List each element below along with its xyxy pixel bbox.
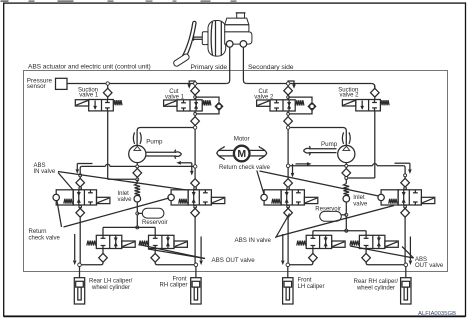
leader: ABS IN valve center to valve D (276, 206, 395, 238)
ABS OUT valve (Rear RH) body (359, 235, 385, 248)
check valve below ABS OUT valve (Front RH) (154, 249, 156, 254)
ABS IN valve (Rear LH) spring frame (56, 190, 73, 205)
cropped caption text fragments at very top (1, 1, 9, 2)
leader: return check valve left to ball A (57, 201, 62, 227)
ABS OUT valve (Rear LH) spring (87, 241, 96, 246)
svg-text:ABS OUT valve: ABS OUT valve (212, 257, 256, 264)
node above cut valve 1 body (194, 95, 196, 97)
wire: left rail (67, 83, 226, 85)
wire: ABS OUT valve (Front RH) to return line (154, 227, 156, 235)
wire: left return line corner down to IN valve A (80, 166, 82, 173)
node at pump 2 suction (345, 177, 347, 178)
inlet valve spring (left) (135, 184, 141, 196)
ABS IN valve (Front LH) spring frame (264, 190, 281, 205)
pump 1 inlet marks (133, 132, 134, 144)
wire: ABS OUT valve (Rear LH) to return line (102, 227, 104, 235)
wire: cut valve 2 down to IN valve C (287, 129, 289, 164)
svg-text:valve 2: valve 2 (254, 95, 274, 101)
check valve above cut valve 1 (194, 85, 196, 86)
leader: return check valve center to ball C (257, 171, 264, 195)
ABS OUT valve (Rear LH) body (96, 235, 122, 248)
cut valve 1 solenoid (164, 100, 177, 106)
return check valve ball (Rear RH) (378, 194, 384, 200)
svg-text:ABS actuator and electric unit: ABS actuator and electric unit (control … (28, 64, 151, 71)
node at return line junction (left) (194, 165, 197, 168)
wire: IN valve A to Rear LH wheel node (79, 217, 81, 263)
check valve above suction valve 1 (107, 85, 109, 88)
node above cut valve 2 body (287, 95, 289, 97)
pump 2 inlet marks (342, 132, 343, 144)
ABS OUT valve (Front RH) solenoid (174, 241, 187, 247)
node on rail above cut valve 2 (286, 82, 289, 85)
cut valve 2 body (270, 100, 295, 111)
cut valve 1 bypass check valve (195, 97, 219, 102)
cut valve 2 solenoid (257, 100, 270, 106)
flow arrow to Front RH wheel (200, 237, 202, 261)
leader: ABS IN valve center to valve C (276, 214, 290, 239)
suction valve 1 solenoid (75, 100, 88, 106)
wire: IN valve B to Front RH wheel node (194, 217, 196, 263)
wire: Rear RH wheel supply (405, 267, 407, 278)
wire: suction valve 2 to pump 2 suction (348, 177, 375, 179)
ABS OUT valve (Front RH) body (149, 235, 175, 248)
leader: ABS OUT valve right to valve D (402, 247, 414, 259)
check valve below ABS OUT valve (Front LH) (312, 249, 314, 254)
svg-text:ABS IN valve: ABS IN valve (235, 237, 272, 244)
wire: reservoir node down to OUT drain (right) (345, 216, 347, 229)
check valve above IN valve B (194, 168, 196, 179)
cut valve 1 body (177, 100, 202, 111)
pedal push rod (194, 36, 203, 38)
check valve below ABS IN valve (Rear LH) (76, 208, 85, 217)
cut valve 2 bypass check valve (288, 97, 312, 102)
node below ABS IN valve (Rear RH) (404, 205, 406, 207)
brake pedal pad (173, 53, 191, 67)
ABS IN valve (Front RH) body (188, 190, 211, 205)
svg-text:IN valve: IN valve (34, 169, 56, 175)
leader: return check valve center to ball D (260, 171, 379, 196)
node below cut valve 2 (287, 126, 289, 128)
secondary outlet port (240, 41, 247, 48)
check valve above suction valve 2 (374, 85, 376, 88)
ABS OUT valve (Rear LH) solenoid (122, 241, 135, 247)
ABS IN valve (Rear LH) body (73, 190, 96, 205)
brake booster (202, 32, 208, 45)
svg-text:valve 1: valve 1 (79, 93, 99, 99)
node below ABS IN valve (Front RH) (194, 205, 196, 207)
node on OUT drain line (left) (136, 226, 139, 229)
wheel cylinder (Front LH) (283, 278, 293, 304)
master cylinder reservoir tank (225, 18, 249, 32)
svg-text:wheel cylinder: wheel cylinder (91, 285, 130, 291)
inlet valve ball (left) (134, 195, 141, 202)
leader: ABS OUT valve right to valve C (350, 246, 414, 258)
wire: OUT valve B to Front RH wheel line (155, 262, 194, 265)
wire: suction valve 1 to pump 1 suction (108, 178, 136, 180)
node above ABS IN valve (Front LH) (287, 187, 290, 190)
wire: cut valve 1 to pump 1 top (137, 128, 193, 146)
ABS OUT valve (Front LH) solenoid (332, 241, 345, 247)
wheel cylinder (Rear RH) (401, 278, 411, 304)
svg-text:OUT valve: OUT valve (415, 263, 444, 269)
node at Front LH wheel line (286, 263, 290, 267)
svg-text:ABS: ABS (415, 257, 427, 263)
node below ABS IN valve (Front LH) (287, 205, 289, 207)
svg-text:LH caliper: LH caliper (298, 284, 325, 290)
pump 1 (129, 145, 146, 162)
svg-text:valve: valve (118, 197, 133, 203)
flow arrow into cut valve 1 (189, 81, 195, 85)
node at Rear LH wheel line (78, 263, 82, 267)
wire: suction valve 1 down line (107, 111, 109, 179)
wire: right rail (247, 83, 372, 85)
pump 1 flow arrow (146, 151, 176, 153)
wheel cylinder (Rear LH) (74, 278, 84, 304)
suction valve 2 return spring (381, 100, 389, 105)
motor M1 (234, 146, 250, 162)
flow arrow from return junction (right) (296, 163, 308, 165)
ABS OUT valve (Front RH) spring (139, 241, 148, 246)
wire: OUT valve D to Rear RH wheel line (366, 262, 404, 265)
cut valve 1 return spring (203, 100, 211, 105)
check valve below ABS OUT valve (Rear RH) (365, 249, 367, 254)
flow arrow into IN valve A (77, 163, 92, 165)
node on rail above suction valve 1 (106, 82, 109, 85)
wire: Front LH wheel supply (287, 267, 289, 278)
leader: ABS IN valve left to valve B (58, 172, 187, 191)
ABS IN valve (Front RH) spring frame (171, 190, 188, 205)
check valve below ABS IN valve (Front LH) (284, 208, 293, 217)
wire: left return line (139, 165, 193, 167)
motor right drive arrow (250, 149, 265, 151)
wire: IN valve C to Front LH wheel node (287, 217, 289, 263)
ABS unit inner box (24, 71, 448, 272)
svg-text:valve 2: valve 2 (340, 93, 360, 99)
node above ABS IN valve (Front RH) (194, 187, 197, 190)
node below cut valve 1 (194, 126, 196, 128)
svg-text:ALFIA0035GB: ALFIA0035GB (418, 311, 456, 317)
inlet valve spring (right) (344, 184, 350, 196)
ABS IN valve (Front RH) spring (179, 199, 187, 204)
wire: right rail corner down to suction valve 2 (371, 84, 374, 89)
svg-text:Rear LH caliper/: Rear LH caliper/ (89, 279, 133, 285)
wire: left OUT drain line (103, 226, 155, 228)
flow arrow toward IN valve B (176, 161, 181, 165)
leader: return check valve left to ball B (64, 198, 170, 227)
inlet valve ball (right) (343, 195, 350, 202)
node at pump 1 suction (136, 177, 138, 178)
svg-text:Rear RH caliper/: Rear RH caliper/ (354, 279, 399, 285)
pressure sensor (56, 78, 68, 89)
svg-text:M: M (237, 148, 246, 160)
return check valve ball (Front RH) (168, 194, 174, 200)
node at Front RH wheel line (194, 263, 198, 267)
flow arrow to Rear RH wheel (409, 237, 411, 261)
node at return line junction (right) (286, 164, 289, 167)
node above IN valve D (404, 174, 407, 177)
node below cut valve 2 body (287, 111, 289, 114)
check valve below ABS OUT valve (Rear LH) (102, 249, 104, 254)
wire: Rear LH wheel line to OUT valve A (81, 262, 103, 265)
svg-text:sensor: sensor (27, 83, 46, 90)
svg-text:Inlet: Inlet (118, 191, 130, 197)
ABS IN valve (Rear RH) spring (389, 199, 397, 204)
check valve below cut valve 2 (287, 115, 289, 117)
suction valve 2 body (356, 100, 381, 111)
wire: cut valve 2 to pump 2 top (290, 128, 346, 146)
check valve below ABS IN valve (Front RH) (191, 208, 200, 217)
wire: secondary drop from master cylinder (243, 47, 246, 83)
cut valve 2 return spring (296, 100, 304, 105)
ABS IN valve (Rear LH) solenoid (97, 197, 110, 203)
check valve above cut valve 2 (287, 85, 289, 86)
wire: cut valve 1 down to IN valve B (194, 129, 196, 165)
ABS IN valve (Front LH) solenoid (304, 197, 317, 203)
wire: Front RH wheel supply (195, 267, 197, 278)
ABS IN valve (Front LH) body (281, 190, 304, 205)
check valve below ABS IN valve (Rear RH) (401, 208, 410, 217)
svg-text:RH caliper: RH caliper (159, 283, 187, 289)
svg-text:Reservoir: Reservoir (315, 207, 341, 213)
svg-text:Reservoir: Reservoir (142, 220, 168, 226)
svg-text:Inlet: Inlet (353, 195, 365, 201)
flow arrow to Front LH wheel (282, 234, 284, 260)
node below cut valve 1 body (194, 111, 196, 114)
hop over suction line (106, 164, 110, 166)
ABS IN valve (Front LH) spring (272, 199, 280, 204)
leader: ABS OUT valve center to valve B (148, 249, 205, 259)
flow arrow into IN valve D (395, 162, 410, 164)
wire: right OUT drain line (313, 230, 366, 232)
node above IN valve A (79, 174, 82, 177)
node below pump 1 (136, 163, 138, 166)
svg-text:valve 1: valve 1 (165, 95, 185, 101)
ABS OUT valve (Rear RH) spring (350, 241, 359, 246)
return check valve ball (Front LH) (261, 194, 267, 200)
reservoir capsule (right) (341, 214, 346, 216)
wire: inlet valve to reservoir node (right) (345, 202, 347, 213)
flow arrow into cut valve 2 (288, 81, 294, 85)
ABS IN valve (Front RH) solenoid (211, 197, 224, 203)
svg-text:check valve: check valve (29, 235, 61, 241)
check valve above IN valve D (404, 177, 406, 179)
reservoir cap (237, 13, 245, 18)
svg-text:Primary side: Primary side (191, 64, 228, 71)
node above ABS IN valve (Rear RH) (404, 187, 407, 190)
master cylinder body (225, 32, 252, 44)
check valve below cut valve 1 (194, 115, 196, 117)
ABS IN valve (Rear RH) body (398, 190, 421, 205)
hop over suction valve 2 line (373, 164, 377, 166)
ABS IN valve (Rear LH) spring (64, 199, 72, 204)
ABS IN valve (Rear RH) solenoid (421, 197, 434, 203)
node on OUT drain line (right) (345, 229, 348, 232)
pump 2 flow arrow (310, 148, 337, 150)
motor left drive arrow (219, 149, 234, 151)
svg-text:Front: Front (298, 278, 312, 284)
reservoir capsule (left) (137, 212, 142, 214)
ABS OUT valve (Rear RH) solenoid (385, 241, 398, 247)
wire: right return line (290, 165, 345, 167)
check valve above IN valve A (79, 177, 81, 179)
node at reservoir (left) (136, 212, 139, 215)
ABS OUT valve (Front LH) body (306, 235, 332, 248)
node on rail above cut valve 1 (193, 82, 196, 85)
svg-text:Pump: Pump (321, 141, 338, 148)
leader: ABS IN valve left to valve A (58, 173, 74, 191)
return check valve ball (Rear LH) (53, 194, 59, 200)
suction valve 1 body (89, 100, 114, 111)
node at Rear RH wheel line (404, 263, 408, 267)
primary outlet port (226, 41, 233, 48)
suction valve 2 solenoid (342, 100, 355, 106)
wire: inlet valve to reservoir node (left) (136, 202, 138, 212)
wire: reservoir node down to OUT drain (left) (136, 215, 138, 226)
wire: Front LH wheel line to OUT valve C (290, 262, 313, 265)
ABS IN valve (Rear RH) spring frame (381, 190, 398, 205)
flow arrow to Rear LH wheel (74, 234, 76, 260)
wheel cylinder (Front RH) (191, 278, 201, 304)
check valve below pump 2 (345, 167, 347, 169)
node below pump 2 (345, 163, 347, 165)
svg-text:Secondary side: Secondary side (248, 64, 294, 71)
wire: ABS OUT valve (Front LH) to return line (312, 231, 314, 236)
suction valve 1 return spring (114, 100, 122, 105)
node at reservoir (right) (345, 213, 348, 216)
leader: ABS OUT valve center to valve A (139, 245, 206, 259)
svg-text:Motor: Motor (234, 136, 250, 143)
svg-text:wheel cylinder: wheel cylinder (356, 286, 395, 292)
ABS OUT valve (Front LH) spring (297, 241, 306, 246)
svg-text:Return: Return (29, 229, 47, 235)
wire: ABS OUT valve (Rear RH) to return line (365, 231, 367, 236)
node below ABS IN valve (Rear LH) (79, 205, 81, 207)
wire: IN valve D to Rear RH wheel node (404, 217, 406, 263)
wire: primary drop from master cylinder (226, 47, 229, 83)
svg-text:valve: valve (353, 202, 368, 208)
check valve below pump 1 (136, 167, 138, 170)
svg-text:Pump: Pump (146, 138, 163, 145)
wire: Rear LH wheel supply (79, 267, 81, 278)
brake pedal arm (182, 22, 193, 57)
wire: right return line corner down to IN valve D (403, 166, 405, 174)
pump 2 (338, 145, 355, 162)
svg-text:ABS: ABS (34, 163, 46, 169)
wire: suction valve 2 down line (374, 111, 376, 178)
node above ABS IN valve (Rear LH) (79, 187, 82, 190)
svg-text:Return check valve: Return check valve (219, 165, 271, 171)
check valve above IN valve C (287, 168, 289, 179)
